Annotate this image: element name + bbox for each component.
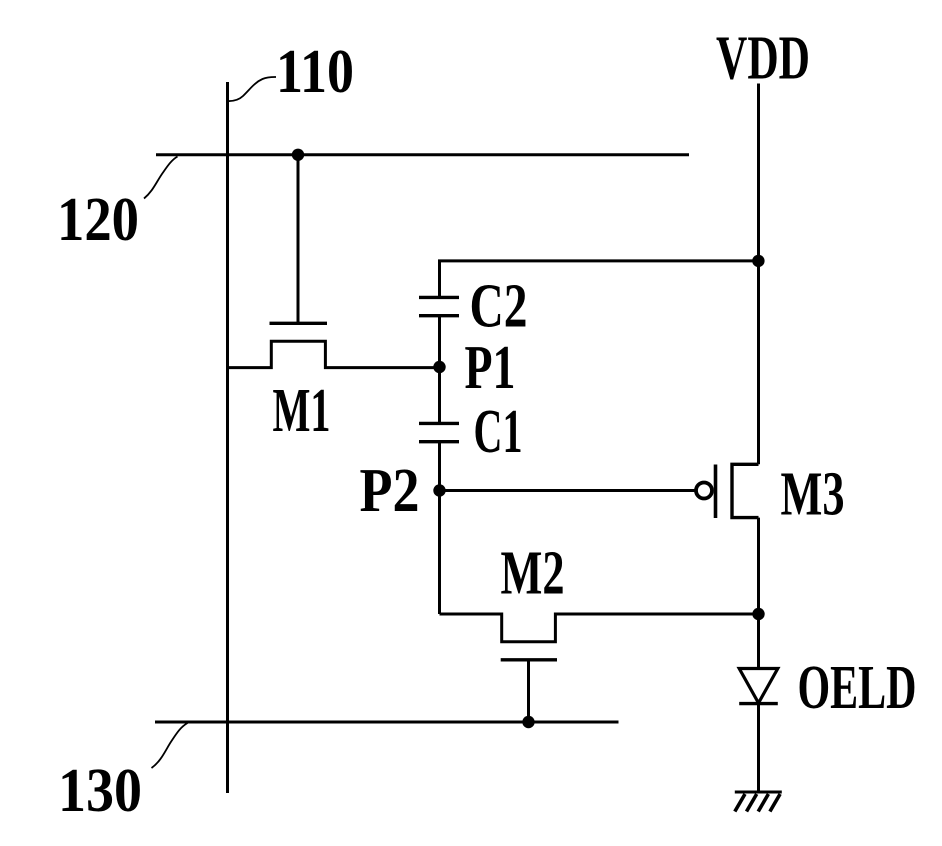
wire C2 to C1 through node P1 <box>438 316 441 424</box>
node junction dot C2 wire at VDD <box>752 255 764 267</box>
svg-text:P2: P2 <box>360 457 420 525</box>
node junction dot on scan line at M1 gate <box>292 149 304 161</box>
node junction dot M2 drain at VDD line <box>752 608 764 620</box>
leader squiggle for 110 <box>228 77 277 101</box>
transistor M2 channel and source-drain wire <box>440 614 759 642</box>
wire scan line 120 horizontal <box>156 153 689 156</box>
wire VDD vertical lower to M2 drain and OELD <box>757 518 760 669</box>
wire C1 bottom through node P2 down to M2 <box>438 442 441 614</box>
leader squiggle for 120 <box>144 157 178 199</box>
svg-text:M2: M2 <box>501 539 565 607</box>
svg-text:110: 110 <box>276 38 354 106</box>
ground bar <box>735 791 782 794</box>
svg-text:C1: C1 <box>474 398 523 466</box>
transistor M2 gate bar <box>501 658 557 661</box>
wire OELD to ground <box>757 704 760 792</box>
transistor M3 gate circle (PMOS bubble) <box>696 483 712 499</box>
transistor M1 channel and source-drain wire <box>228 341 440 367</box>
transistor M3 channel notch <box>732 464 759 517</box>
transistor M3 gate bar <box>714 465 718 519</box>
transistor M1 gate bar <box>270 322 328 325</box>
diode OELD triangle <box>739 669 778 704</box>
svg-text:M1: M1 <box>273 377 331 445</box>
svg-text:120: 120 <box>57 186 139 254</box>
transistor M2 gate lead wire <box>527 660 530 722</box>
svg-text:VDD: VDD <box>716 25 810 93</box>
svg-text:P1: P1 <box>465 334 516 402</box>
capacitor C2 branch vertical wire top and wire to VDD line <box>440 261 759 298</box>
wire data line 110 vertical <box>226 82 229 793</box>
capacitor C2 top plate <box>419 296 459 299</box>
capacitor C2 bottom plate <box>419 314 459 317</box>
wire node P2 to M3 gate <box>440 489 697 492</box>
leader squiggle for 130 <box>152 723 188 768</box>
ground hatch slash 3 <box>758 794 768 812</box>
capacitor C1 top plate <box>419 422 459 425</box>
node P2 junction dot <box>433 484 445 496</box>
ground hatch slash 2 <box>747 794 757 812</box>
svg-text:M3: M3 <box>781 461 845 529</box>
wire line 130 horizontal <box>155 721 619 724</box>
node P1 junction dot <box>433 361 445 373</box>
svg-text:OELD: OELD <box>798 654 917 722</box>
svg-text:130: 130 <box>58 757 142 825</box>
diode OELD cathode bar <box>739 702 778 705</box>
capacitor C1 bottom plate <box>419 440 459 443</box>
wire VDD vertical upper <box>757 84 760 465</box>
svg-text:C2: C2 <box>470 273 528 341</box>
ground hatch slash 4 <box>770 794 780 812</box>
transistor M1 gate lead wire <box>297 155 300 322</box>
ground hatch slash 1 <box>735 794 745 812</box>
node junction dot M2 gate at line 130 <box>522 716 534 728</box>
